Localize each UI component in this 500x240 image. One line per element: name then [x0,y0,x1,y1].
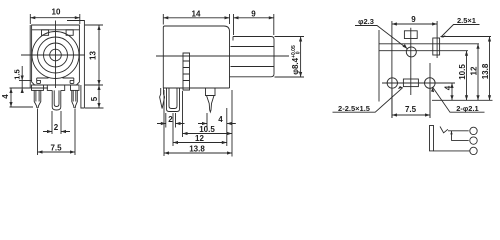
svg-text:2-φ2.1: 2-φ2.1 [456,104,478,113]
vertical centerline [55,21,57,89]
jack body bar [430,126,434,151]
pin 1 (spear) [160,88,165,109]
barrel [230,37,275,77]
horizontal centerline [21,54,85,56]
right slot [433,38,440,55]
svg-text:φ2.3: φ2.3 [358,17,374,26]
right pin collar [71,85,80,90]
middle pin inner [54,90,59,106]
dim 13.8 (right view) [488,37,491,101]
middle pin [52,90,61,110]
bracket right edge with top tab [67,21,84,109]
svg-text:13.8: 13.8 [481,63,490,79]
barrel bore top [231,46,275,48]
dim 2 (middle bottom) [157,122,185,125]
dim 12 (right view) [476,44,479,101]
ring 3 [44,43,68,67]
pin 3 (tapered) [206,88,216,112]
left shoulder notch [37,78,49,83]
contact tick [451,131,453,141]
dim 13 (right) [85,25,103,85]
svg-text:2-2.5×1.5: 2-2.5×1.5 [338,104,370,113]
dim 13.8 [164,151,232,154]
dim 9 (right view) [392,22,437,25]
terminal line 2 [452,140,469,142]
dim 7.5 (right view bottom) [392,89,430,118]
body outline [163,26,229,88]
terminal circle 2 [470,137,477,144]
dim 10.5 [183,132,233,135]
svg-text:2: 2 [168,115,173,124]
middle bottom ext lines [164,90,232,157]
svg-text:10.5: 10.5 [458,64,467,80]
pin 2 (channel) [167,88,180,112]
svg-text:1.5: 1.5 [13,69,22,79]
dim 4 (right view) [450,83,453,100]
svg-text:10: 10 [52,8,61,17]
grid horizontals [379,37,493,101]
dim 7.5 (bottom) [38,109,76,156]
svg-text:2.5×1: 2.5×1 [457,16,476,25]
svg-text:2: 2 [54,123,59,132]
svg-text:12: 12 [195,134,204,143]
dim 1.5 (left) [19,66,32,93]
left pin [34,90,41,107]
body right edge lower [163,87,229,89]
dim 4 (left) [9,88,33,107]
terminal line 3 [434,150,470,152]
svg-text:13: 13 [89,51,98,60]
switch contact V [440,127,448,133]
label 2-phi2.1 with leader [431,87,485,112]
centerline [156,55,289,57]
right pin [72,90,78,107]
ring 4 [50,49,62,61]
dim 4 (middle bottom) [198,122,236,125]
top tab A [42,30,49,36]
dim 9 (top) [234,14,274,35]
svg-text:7.5: 7.5 [50,144,62,153]
svg-text:4: 4 [218,115,223,124]
dim 14 (top) [163,14,229,25]
outer circle [32,32,79,79]
svg-text:4: 4 [1,94,10,99]
center tab [47,85,64,90]
label 2.5x1 with leader [441,25,480,38]
top slot [404,31,417,39]
terminal circle 3 [470,147,477,154]
svg-text:5: 5 [90,96,99,101]
svg-text:4: 4 [444,85,453,90]
svg-text:10.5: 10.5 [199,125,215,134]
bracket left edge [29,25,31,88]
bracket foot [81,85,85,108]
hole phi2.3 [406,47,416,57]
dim 12 [173,141,227,144]
dim 2 (bottom) [43,111,70,134]
ring 2 [38,37,74,73]
dim 5 (right) [85,85,104,108]
label phi2.3 with leader [355,26,407,49]
bezel top line [32,29,80,31]
svg-text:12: 12 [470,66,479,75]
grid verticals [379,21,437,118]
bottom slot [403,79,418,87]
terminal circle 1 [470,127,477,134]
svg-text:7.5: 7.5 [405,105,417,114]
right shoulder notch [63,78,74,83]
bottom circle 2 [425,78,436,89]
svg-text:φ8.4+0.050: φ8.4+0.050 [291,45,302,75]
svg-text:9: 9 [411,15,416,24]
body outline [32,25,80,85]
dim 10 (top) [30,14,80,24]
dim 10.5 (right view) [465,51,468,101]
barrel bore bottom [231,66,275,68]
svg-text:13.8: 13.8 [189,145,205,154]
bottom circle 1 [387,78,397,88]
peg [183,53,190,90]
terminal line 1 [448,130,469,132]
dim phi8.4 (right) [275,37,305,78]
svg-text:14: 14 [192,9,201,18]
svg-text:9: 9 [251,9,256,18]
flange bottom line [10,87,49,89]
top tab B [66,30,73,36]
left pin collar [32,85,44,90]
label 2-2.5x1.5 with leader [333,86,403,112]
